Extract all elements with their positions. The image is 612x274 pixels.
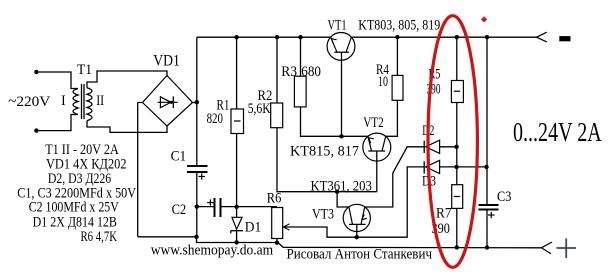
- node D3-R5 junction: [454, 165, 458, 169]
- svg-text:R7: R7: [436, 206, 452, 222]
- node R6 bottom junction: [275, 241, 279, 245]
- wire bridge left vertex down to bottom rail: [138, 103, 143, 237]
- node D1 bottom junction: [234, 240, 238, 244]
- node D3-C3 junction: [484, 165, 488, 169]
- svg-text:5,6K: 5,6K: [248, 101, 271, 117]
- node rail R5: [455, 35, 459, 39]
- zener diode D1: [231, 207, 243, 243]
- wire secondary bottom lead: [87, 121, 167, 133]
- svg-text:VD1: VD1: [153, 53, 180, 70]
- node bridge output: [195, 100, 199, 104]
- wire top rail right of VT1: [351, 36, 536, 38]
- node VT1 base junction: [339, 134, 343, 138]
- resistor R7: [452, 185, 463, 209]
- svg-text:R6: R6: [267, 190, 282, 206]
- svg-text:I: I: [61, 93, 66, 109]
- svg-text:www.shemopay.do.am: www.shemopay.do.am: [151, 243, 274, 259]
- diode D2: [424, 140, 456, 153]
- svg-text:II: II: [96, 93, 104, 109]
- svg-text:C3: C3: [497, 189, 511, 205]
- wire R6 wiper to VT3 and D3: [284, 167, 425, 237]
- node rail R4: [395, 35, 399, 39]
- diode inside VD1: [158, 96, 178, 108]
- wire top rail left of VT1: [197, 36, 331, 38]
- C2 plus sign: [207, 202, 214, 204]
- node bottom-left rail junction: [194, 235, 198, 239]
- resistor R4: [396, 37, 398, 75]
- resistor R1: [236, 37, 238, 109]
- wire C3 branch vertical: [486, 37, 488, 205]
- output terminal plus (bottom right): [541, 239, 576, 259]
- wire VT3 collector to D2: [365, 147, 425, 207]
- node rail C3 bottom: [485, 245, 489, 249]
- svg-text:~220V: ~220V: [8, 94, 50, 110]
- svg-text:0...24V 2A: 0...24V 2A: [513, 117, 602, 147]
- capacitor C2: [197, 206, 215, 208]
- svg-text:C2 100MFd x 25V: C2 100MFd x 25V: [29, 200, 119, 216]
- diode D3: [424, 160, 486, 173]
- transformer T1 secondary winding: [87, 88, 92, 121]
- resistor R5: [456, 37, 458, 80]
- wire primary top lead: [36, 72, 78, 89]
- transistor VT2: [363, 133, 391, 192]
- wire VT3 emitter branch: [337, 192, 349, 207]
- svg-text:KT361, 203: KT361, 203: [311, 179, 372, 195]
- potentiometer R6: [272, 208, 283, 239]
- svg-text:820: 820: [207, 111, 223, 127]
- output terminal minus (top right): [537, 32, 571, 42]
- node input terminal bottom: [34, 128, 38, 132]
- svg-text:C1: C1: [171, 148, 187, 164]
- capacitor C3: [479, 204, 499, 206]
- wire primary bottom lead: [36, 115, 78, 131]
- node C2 branch junction: [195, 204, 199, 208]
- node rail R1: [234, 35, 238, 39]
- node rail R2: [275, 35, 279, 39]
- svg-text:VT3: VT3: [312, 207, 334, 223]
- svg-text:KT815, 817: KT815, 817: [290, 143, 359, 159]
- svg-text:R6 4,7K: R6 4,7K: [81, 229, 118, 245]
- svg-text:VT1: VT1: [328, 18, 347, 34]
- transistor VT3: [343, 204, 370, 237]
- svg-text:C2: C2: [172, 202, 187, 218]
- svg-text:R3: R3: [281, 64, 297, 80]
- node VT3 bottom junction: [355, 235, 359, 239]
- red highlight ellipse: [428, 16, 477, 268]
- svg-text:T1: T1: [77, 62, 92, 78]
- svg-text:Рисовал Антон Станкевич: Рисовал Антон Станкевич: [287, 247, 433, 263]
- node VT2 base wire junction: [335, 190, 339, 194]
- svg-text:10: 10: [378, 74, 388, 90]
- node rail R7 bottom: [455, 245, 459, 249]
- svg-text:VT2: VT2: [363, 115, 384, 131]
- svg-text:680: 680: [301, 64, 321, 80]
- wire main vertical x=197 from top rail corner to C1: [196, 37, 198, 166]
- rectifier bridge VD1 diamond: [143, 76, 193, 127]
- svg-text:D1: D1: [245, 220, 261, 236]
- R6 wiper arrowhead: [284, 224, 290, 227]
- resistor R3: [300, 37, 302, 76]
- transformer T1 core: [81, 84, 83, 119]
- resistor R2: [276, 37, 278, 103]
- C3 plus sign: [488, 214, 495, 216]
- node D1 top junction: [234, 205, 238, 209]
- red diamond mark: [481, 16, 487, 22]
- node rail C3 branch: [485, 35, 489, 39]
- transformer T1 primary winding: [73, 89, 78, 115]
- node rail R3: [298, 35, 302, 39]
- node D2-R5 junction: [454, 145, 458, 149]
- wire bottom rail left segment: [138, 237, 542, 248]
- transistor VT1: [327, 33, 355, 137]
- node input terminal top: [34, 70, 38, 74]
- capacitor C1: [187, 165, 208, 167]
- wire x=197 below C1 to bottom rail: [196, 172, 198, 237]
- C1 plus sign: [199, 176, 206, 178]
- wire bridge right vertex stub: [193, 102, 197, 104]
- svg-text:KT803, 805, 819: KT803, 805, 819: [358, 18, 440, 34]
- wire secondary top lead: [87, 71, 167, 88]
